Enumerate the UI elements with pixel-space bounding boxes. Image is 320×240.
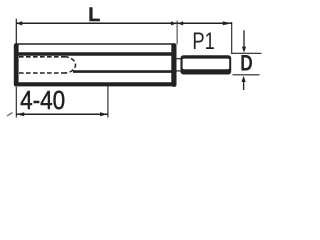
wire: 4-40 dimension line bbox=[16, 113, 108, 115]
threaded stud outer bbox=[181, 55, 232, 74]
hex flat upper line bbox=[16, 52, 174, 56]
D lower arrowhead bbox=[242, 76, 246, 82]
arrowhead L right bbox=[171, 21, 177, 25]
arrowhead L left bbox=[16, 21, 22, 25]
arrowhead P1 right bbox=[223, 21, 232, 25]
4-40 left extension line bbox=[15, 87, 17, 118]
stud neck lower line bbox=[176, 70, 183, 72]
arrowhead P1 left bbox=[177, 21, 183, 25]
D upper arrowhead bbox=[242, 47, 246, 53]
body right face bbox=[171, 43, 176, 87]
threaded stud inner white bbox=[183, 59, 230, 70]
stud neck upper line bbox=[176, 58, 183, 60]
tapped hole hidden top line bbox=[19, 56, 65, 58]
svg-text:D: D bbox=[240, 50, 253, 75]
node: left extension line of L bbox=[15, 19, 17, 48]
4-40 right extension line bbox=[107, 85, 109, 118]
svg-text:4-40: 4-40 bbox=[20, 87, 65, 115]
node: right extension line of P1 bbox=[231, 22, 233, 54]
wire: L/P1 dimension line bbox=[16, 22, 232, 24]
body left face bbox=[14, 43, 19, 86]
body top edge bbox=[15, 43, 175, 45]
D bottom extension tick bbox=[233, 74, 260, 76]
arrowhead 4-40 left bbox=[17, 112, 25, 116]
hex flat lower line bbox=[73, 70, 174, 73]
arrowhead 4-40 right bbox=[100, 112, 108, 116]
tapped hole hidden bottom line bbox=[19, 72, 65, 74]
D lower arrow line bbox=[243, 80, 245, 90]
svg-text:P1: P1 bbox=[192, 28, 214, 55]
tapped hole drill end dashed arc bbox=[65, 57, 76, 73]
stray scan mark bbox=[7, 113, 13, 117]
node: shared extension line L/P1 bbox=[176, 21, 178, 45]
D top extension tick bbox=[231, 52, 261, 54]
svg-text:L: L bbox=[88, 4, 100, 26]
D upper arrow line bbox=[243, 30, 245, 47]
body bottom edge bbox=[15, 82, 176, 86]
